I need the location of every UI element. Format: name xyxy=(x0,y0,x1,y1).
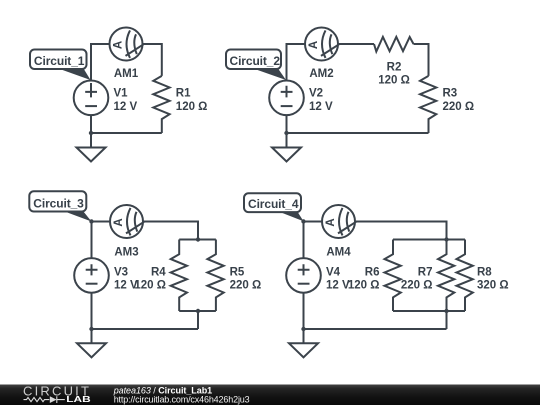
svg-text:Circuit_3: Circuit_3 xyxy=(33,197,84,211)
svg-text:AM4: AM4 xyxy=(326,247,351,259)
wire bottom of circuit 2 xyxy=(287,132,429,134)
svg-text:V4: V4 xyxy=(326,266,341,278)
ammeter AM4 meter arcs xyxy=(338,208,356,236)
wire top-left from node to ammeter AM1 xyxy=(91,44,110,81)
wire V2 bottom to ground node xyxy=(286,115,288,147)
resistor R4 branch xyxy=(171,240,187,312)
V2 minus sign xyxy=(281,105,293,107)
resistor R2 zigzag horizontal xyxy=(374,37,414,52)
svg-text:R8: R8 xyxy=(477,266,492,278)
svg-text:R7: R7 xyxy=(418,266,433,278)
callout label Circuit_2 xyxy=(226,50,286,81)
node dot circuit 3 top xyxy=(89,219,93,223)
svg-text:R6: R6 xyxy=(365,266,380,278)
V1 plus sign xyxy=(85,83,97,97)
ammeter AM2 circle xyxy=(305,28,338,61)
resistor R7 branch xyxy=(438,240,454,312)
bottom rail of parallel block xyxy=(393,310,465,312)
wire node down to V3 xyxy=(91,222,93,259)
svg-text:R3: R3 xyxy=(443,88,458,100)
node dot parallel top xyxy=(196,237,200,241)
voltage source V3 circle xyxy=(74,258,109,293)
wire bottom of circuit 3 xyxy=(92,328,199,330)
svg-text:220 Ω: 220 Ω xyxy=(230,280,262,292)
wire AM2 to R2 xyxy=(338,43,374,45)
ground symbol circuit 1 xyxy=(77,148,106,162)
V1 minus sign xyxy=(85,105,97,107)
svg-text:A: A xyxy=(113,41,125,49)
svg-text:AM2: AM2 xyxy=(309,68,333,80)
resistor R1 zigzag xyxy=(153,76,169,133)
svg-text:V3: V3 xyxy=(114,266,128,278)
svg-text:12 V: 12 V xyxy=(309,101,333,113)
svg-text:220 Ω: 220 Ω xyxy=(443,101,475,113)
wire bottom of circuit 1 xyxy=(91,132,162,134)
svg-text:AM3: AM3 xyxy=(114,247,138,259)
V2 plus sign xyxy=(281,86,293,98)
node dot circuit 4 top xyxy=(301,219,305,223)
node dot parallel bottom xyxy=(444,309,448,313)
V3 plus sign xyxy=(86,264,98,275)
wire node down to V4 xyxy=(303,222,305,259)
svg-text:R1: R1 xyxy=(176,88,191,100)
ammeter AM2 meter arcs xyxy=(321,30,339,58)
node dot parallel top xyxy=(444,237,448,241)
svg-text:V2: V2 xyxy=(309,88,323,100)
V3 minus sign xyxy=(86,283,98,285)
svg-text:120 Ω: 120 Ω xyxy=(378,75,410,87)
voltage source V4 circle xyxy=(286,258,321,293)
svg-text:Circuit_2: Circuit_2 xyxy=(230,54,281,68)
callout label Circuit_1 xyxy=(30,50,91,81)
callout label Circuit_3 xyxy=(29,191,91,221)
logo resistor-diode squiggle xyxy=(24,396,65,403)
resistor R8 branch xyxy=(457,240,473,312)
svg-text:Circuit_4: Circuit_4 xyxy=(248,197,299,211)
svg-text:R5: R5 xyxy=(230,266,245,278)
wire AM4 right to parallel block top xyxy=(355,222,447,240)
svg-text:LAB: LAB xyxy=(66,394,90,404)
svg-text:AM1: AM1 xyxy=(114,68,139,80)
svg-text:V1: V1 xyxy=(114,88,129,100)
node dot circuit 3 bottom xyxy=(89,327,93,331)
wire AM3 right to parallel block top xyxy=(143,222,198,240)
resistor R3 zigzag xyxy=(420,76,436,133)
top rail of parallel block xyxy=(179,239,216,241)
node dot circuit 1 xyxy=(89,131,93,135)
svg-text:12 V: 12 V xyxy=(114,101,138,113)
ground symbol circuit 3 xyxy=(77,343,106,357)
ground symbol circuit 2 xyxy=(272,148,301,162)
svg-text:12 V: 12 V xyxy=(326,280,350,292)
resistor R5 branch xyxy=(207,240,223,312)
voltage source V2 circle xyxy=(269,81,304,116)
ammeter AM4 circle xyxy=(322,205,355,238)
ammeter AM3 meter arcs xyxy=(126,208,144,236)
node dot parallel bottom xyxy=(196,309,200,313)
ammeter AM1 meter arcs xyxy=(126,30,144,58)
resistor R6 branch xyxy=(385,240,401,312)
svg-text:Circuit_1: Circuit_1 xyxy=(34,54,85,68)
svg-text:320 Ω: 320 Ω xyxy=(477,280,509,292)
wire parallel block bottom to circuit bottom xyxy=(197,311,199,329)
callout label Circuit_4 xyxy=(244,193,304,221)
wire V3 bottom to ground node xyxy=(91,293,93,344)
wire V1 bottom to ground node xyxy=(90,115,92,147)
wire bottom of circuit 4 xyxy=(304,328,447,330)
bottom rail of parallel block xyxy=(179,310,216,312)
voltage source V1 circle xyxy=(74,81,109,116)
wire node to ammeter AM4 xyxy=(304,221,323,223)
node dot circuit 2 xyxy=(284,131,288,135)
top rail of parallel block xyxy=(393,239,465,241)
ammeter AM3 circle xyxy=(110,205,143,238)
V4 minus sign xyxy=(298,283,310,285)
wire V4 bottom to ground node xyxy=(303,293,305,344)
wire top-left from node to ammeter AM2 xyxy=(287,44,306,81)
svg-text:A: A xyxy=(308,41,320,49)
svg-text:A: A xyxy=(113,218,125,226)
wire AM1 to R1 top xyxy=(143,44,162,76)
svg-text:R4: R4 xyxy=(151,266,166,278)
svg-text:R2: R2 xyxy=(387,61,402,73)
svg-text:A: A xyxy=(325,218,337,226)
svg-text:120 Ω: 120 Ω xyxy=(134,280,166,292)
svg-text:120 Ω: 120 Ω xyxy=(176,101,208,113)
svg-text:http://circuitlab.com/cx46h426: http://circuitlab.com/cx46h426h2ju3 xyxy=(114,395,250,405)
wire parallel block bottom to circuit bottom xyxy=(446,311,448,329)
ground symbol circuit 4 xyxy=(289,343,318,357)
wire R2 to corner to R3 top xyxy=(414,44,429,76)
ammeter AM1 circle xyxy=(110,28,143,61)
V4 plus sign xyxy=(298,264,310,275)
node dot circuit 4 bottom xyxy=(301,327,305,331)
svg-text:120 Ω: 120 Ω xyxy=(348,280,380,292)
wire node to ammeter AM3 xyxy=(92,221,111,223)
svg-text:220 Ω: 220 Ω xyxy=(401,280,433,292)
